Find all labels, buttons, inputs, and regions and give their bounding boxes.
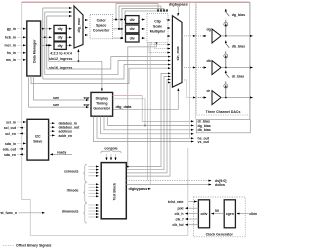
svg-text:dig_mux: dig_mux: [77, 18, 81, 32]
svg-text:db_bias: db_bias: [232, 44, 245, 48]
svg-text:scl_in: scl_in: [6, 120, 16, 124]
svg-text:sda_out: sda_out: [3, 147, 17, 151]
svg-text:Color: Color: [97, 19, 107, 23]
svg-text:dmanouts: dmanouts: [62, 209, 79, 213]
svg-text:tclst_rate: tclst_rate: [168, 200, 184, 204]
svg-text:vs_out: vs_out: [198, 140, 210, 144]
svg-text:swr: swr: [84, 103, 91, 107]
svg-text:digbypass: digbypass: [169, 3, 188, 7]
svg-text:swr: swr: [53, 96, 60, 100]
svg-text:gy_in: gy_in: [7, 27, 16, 31]
svg-text:dtg_data: dtg_data: [116, 105, 133, 109]
svg-text:clk_h: clk_h: [175, 212, 184, 216]
svg-text:Generator: Generator: [93, 107, 110, 111]
svg-text:dr_bias: dr_bias: [232, 74, 245, 78]
svg-text:sln_mux: sln_mux: [176, 46, 180, 60]
svg-text:scl_en: scl_en: [5, 132, 16, 136]
svg-text:swr: swr: [53, 103, 60, 107]
svg-text:dly: dly: [58, 27, 63, 31]
svg-text:Multiplier: Multiplier: [150, 30, 166, 34]
svg-text:sln12_ingress: sln12_ingress: [49, 57, 72, 61]
svg-text:I2C: I2C: [35, 135, 41, 139]
svg-text:Space: Space: [96, 24, 106, 28]
svg-text:4:2:2 to 4:4:4: 4:2:2 to 4:4:4: [50, 51, 72, 55]
svg-text:Data Manager: Data Manager: [33, 39, 37, 63]
svg-text:digbypass: digbypass: [129, 187, 148, 191]
svg-text:sda_in: sda_in: [5, 142, 16, 146]
svg-text:sda_en: sda_en: [4, 153, 16, 157]
svg-text:clkin: clkin: [249, 212, 257, 216]
svg-text:Display: Display: [96, 97, 109, 101]
svg-text:hs_in: hs_in: [7, 51, 16, 55]
svg-text:dly: dly: [58, 36, 63, 40]
svg-text:dg: dg: [207, 28, 211, 32]
svg-text:clk_hd: clk_hd: [172, 223, 183, 227]
svg-text:rfmode: rfmode: [67, 189, 79, 193]
svg-text:addr_en: addr_en: [59, 134, 73, 138]
svg-text:clk_f: clk_f: [176, 217, 185, 221]
svg-text:div: div: [130, 36, 135, 40]
svg-text:div: div: [130, 27, 135, 31]
svg-text:Three Channel DACs: Three Channel DACs: [206, 110, 241, 114]
svg-text:hcb_in: hcb_in: [5, 36, 16, 40]
svg-text:dslhw: dslhw: [215, 183, 225, 187]
svg-text:Clock Generator: Clock Generator: [206, 233, 234, 237]
svg-text:cdiv: cdiv: [200, 212, 207, 216]
svg-text:Offset Binary Signals: Offset Binary Signals: [16, 244, 51, 248]
svg-text:Test Block: Test Block: [113, 183, 117, 200]
svg-text:ready: ready: [57, 151, 66, 155]
svg-text:5X: 5X: [215, 209, 220, 213]
svg-text:Timing: Timing: [96, 102, 107, 106]
svg-text:Slave: Slave: [33, 140, 42, 144]
svg-text:db_bias: db_bias: [198, 128, 211, 132]
svg-text:Clip: Clip: [154, 20, 161, 24]
svg-text:scl_out: scl_out: [4, 126, 17, 130]
svg-text:mcr_in: mcr_in: [5, 44, 16, 48]
svg-text:Converter: Converter: [93, 29, 110, 33]
svg-text:swr: swr: [84, 96, 91, 100]
svg-text:dg_bias: dg_bias: [232, 13, 245, 17]
svg-text:Scale: Scale: [153, 25, 162, 29]
svg-text:dly: dly: [58, 44, 63, 48]
svg-text:div: div: [130, 18, 135, 22]
svg-text:csinouts: csinouts: [64, 169, 78, 173]
svg-text:arst_func_n: arst_func_n: [0, 211, 17, 215]
svg-text:cgen: cgen: [226, 212, 234, 216]
svg-text:ms_in: ms_in: [6, 58, 16, 62]
svg-text:db: db: [207, 59, 211, 63]
svg-text:pixi: pixi: [177, 207, 183, 211]
